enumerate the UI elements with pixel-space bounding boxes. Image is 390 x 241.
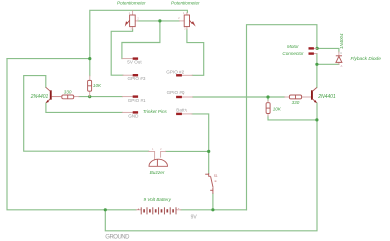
svg-text:10K: 10K	[273, 106, 282, 111]
svg-text:10K: 10K	[93, 83, 102, 88]
svg-text:Flyback Diode: Flyback Diode	[351, 56, 382, 62]
svg-text:C: C	[340, 51, 342, 55]
svg-text:1N4004: 1N4004	[339, 33, 344, 49]
svg-text:GND: GND	[128, 114, 139, 119]
svg-text:2N4401: 2N4401	[317, 94, 336, 100]
svg-text:2N4401: 2N4401	[30, 94, 49, 100]
svg-text:Buzzer: Buzzer	[150, 170, 165, 176]
svg-text:Potentiometer: Potentiometer	[117, 1, 146, 6]
svg-text:Potentiometer: Potentiometer	[171, 1, 200, 6]
svg-text:Trinket Pins: Trinket Pins	[143, 109, 168, 114]
svg-text:5V Out: 5V Out	[127, 60, 142, 65]
svg-text:A: A	[341, 64, 343, 68]
svg-text:S1: S1	[214, 174, 218, 178]
svg-text:GPIO #1: GPIO #1	[128, 98, 146, 103]
svg-text:Connector: Connector	[282, 51, 304, 56]
svg-text:330: 330	[64, 89, 72, 94]
svg-text:9 Volt Battery: 9 Volt Battery	[144, 197, 172, 202]
svg-text:9V: 9V	[191, 214, 198, 220]
svg-text:GPIO #3: GPIO #3	[128, 76, 146, 81]
svg-text:GROUND: GROUND	[105, 234, 130, 240]
svg-text:330: 330	[292, 100, 300, 105]
svg-text:Motor: Motor	[287, 44, 299, 49]
